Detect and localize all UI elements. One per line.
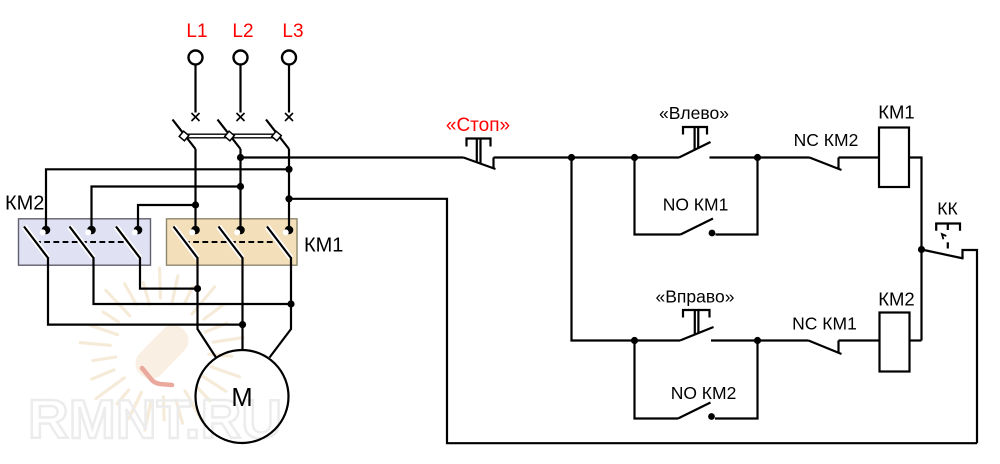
svg-text:КМ2: КМ2 [878, 289, 914, 310]
svg-text:NC КМ1: NC КМ1 [792, 314, 857, 334]
svg-text:КМ1: КМ1 [878, 102, 914, 123]
svg-text:М: М [231, 384, 252, 412]
svg-text:КМ1: КМ1 [304, 235, 343, 257]
svg-text:КК: КК [937, 199, 958, 219]
svg-text:NO КМ2: NO КМ2 [671, 383, 737, 403]
svg-text:L1: L1 [186, 21, 207, 42]
svg-text:NO КМ1: NO КМ1 [663, 195, 729, 215]
svg-text:«Стоп»: «Стоп» [446, 115, 510, 136]
svg-text:КМ2: КМ2 [5, 193, 44, 215]
svg-text:NC КМ2: NC КМ2 [794, 130, 859, 150]
svg-text:L2: L2 [232, 21, 253, 42]
svg-text:«Вправо»: «Вправо» [656, 287, 735, 307]
svg-text:«Влево»: «Влево» [659, 103, 729, 123]
svg-text:L3: L3 [282, 21, 303, 42]
